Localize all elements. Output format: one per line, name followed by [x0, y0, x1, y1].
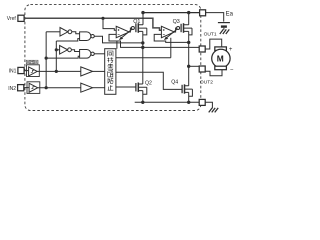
ground battery hatch — [220, 29, 230, 34]
wire U8 out to box — [93, 87, 105, 89]
arrow through U9 — [165, 29, 177, 39]
svg-text:OUT2: OUT2 — [200, 80, 213, 86]
interlock box 同時導通防止 — [105, 49, 116, 95]
wire OUT1 to terminal — [143, 46, 199, 48]
wire GND external — [205, 102, 212, 108]
wire B to NAND1 lower input — [56, 39, 79, 41]
wire U1 to box top — [116, 41, 118, 49]
wire box to Q4 gate — [116, 57, 171, 59]
op-amp U1 minus — [118, 33, 120, 35]
terminal IN2 — [18, 85, 24, 91]
svg-text:Vref: Vref — [7, 16, 17, 22]
transistor Q1 — [131, 27, 134, 30]
label 防 — [108, 78, 113, 84]
buffer U5 triangle — [29, 67, 38, 76]
node A bottom — [45, 86, 48, 89]
buffer U7 triangle — [81, 67, 93, 76]
IC dashed border — [25, 5, 201, 111]
battery Ea plate long — [218, 22, 230, 24]
node Q1 source — [141, 11, 144, 14]
svg-text:Q2: Q2 — [145, 81, 152, 87]
label 止 — [108, 85, 114, 90]
wire OUT2 riser — [188, 31, 190, 85]
svg-text:M: M — [217, 54, 224, 64]
battery Ea plate short — [221, 25, 227, 27]
svg-text:OUT1: OUT1 — [204, 31, 217, 37]
terminal Vref — [18, 15, 24, 21]
motor M circle — [212, 49, 230, 67]
transistor Q4 — [181, 85, 183, 93]
svg-text:+: + — [229, 47, 233, 53]
wire Q2 source drop — [142, 91, 144, 103]
inverter U3 bubble — [68, 48, 72, 52]
buffer U5 box — [27, 65, 40, 77]
wire OUT1 to motor — [205, 39, 222, 49]
wire U9 drive vertical — [170, 38, 172, 58]
wire VM to battery — [206, 13, 224, 22]
transistor Q3 — [177, 27, 180, 30]
svg-text:IN1: IN1 — [9, 69, 17, 75]
op-amp U9 triangle — [161, 26, 174, 37]
svg-text:Ea: Ea — [226, 12, 234, 18]
wire A to inverter U2 input — [46, 31, 60, 33]
buffer U6 hysteresis — [31, 87, 34, 89]
terminal OUT1 — [199, 46, 205, 52]
terminal IN1 — [18, 67, 24, 73]
op-amp U1 triangle — [116, 26, 129, 37]
wire OUT1 riser — [142, 31, 144, 84]
node OUT1 lower — [141, 46, 144, 49]
node GND rail left — [141, 101, 144, 104]
wire battery to ground — [223, 28, 225, 30]
op-amp U9 plus — [163, 29, 165, 31]
wire VM power rail — [143, 12, 200, 14]
buffer U6 box — [27, 82, 40, 94]
ground hatch bottom — [209, 108, 219, 113]
node Q3 source — [187, 11, 190, 14]
wire U2 out to NAND1 — [72, 32, 80, 34]
wire U1 feedback — [109, 34, 143, 47]
svg-text:−: − — [230, 68, 234, 74]
wire IN1 — [24, 70, 28, 72]
wire A to NAND2 lower input — [46, 56, 79, 58]
node GND rail right — [187, 101, 190, 104]
wire GND rail — [135, 101, 200, 103]
wire buffer U6 output — [38, 87, 81, 89]
node OUT2 upper — [187, 41, 190, 44]
svg-text:Q3: Q3 — [173, 19, 180, 25]
wire NAND2 output to box — [94, 53, 104, 55]
node OUT1 upper — [141, 41, 144, 44]
svg-text:IN2: IN2 — [8, 86, 16, 92]
label buffer 緩衝器 — [26, 60, 38, 64]
wire Vref to op-amp U1 — [103, 18, 116, 30]
wire Q4 source drop — [188, 92, 190, 102]
transistor Q2 — [135, 83, 137, 91]
svg-text:Q4: Q4 — [171, 79, 178, 85]
arrowhead U9 — [164, 37, 168, 41]
wire box branch mid — [116, 72, 182, 89]
inverter U3 triangle — [60, 46, 68, 55]
node OUT2 lower — [187, 65, 190, 68]
NAND gate U4a — [80, 32, 91, 41]
arrow through U1 — [120, 29, 132, 39]
label 同 — [108, 51, 113, 56]
inverter U2 bubble — [68, 30, 72, 34]
label 通 — [108, 71, 114, 77]
terminal OUT2 — [199, 66, 205, 72]
wire B to inverter U3 input — [56, 49, 59, 51]
node Vref branch — [101, 17, 104, 20]
buffer U5 hysteresis — [31, 70, 34, 72]
arrowhead U1 — [119, 37, 123, 41]
wire Vref rail — [24, 18, 161, 30]
wire IN2 — [24, 87, 29, 89]
wire Q3 source riser — [188, 13, 190, 25]
wire U9 out to Q3 gate — [174, 28, 176, 32]
NAND gate U4b — [80, 50, 91, 59]
node B top — [55, 70, 58, 73]
node A mid — [45, 57, 48, 60]
wire buffer U5 output — [37, 70, 81, 72]
terminal GND — [199, 99, 205, 105]
wire U7 out to box — [93, 70, 105, 72]
wire Q1 source riser — [142, 13, 144, 25]
label 時 — [108, 57, 114, 62]
motor brush top — [215, 47, 227, 51]
label 導 — [108, 64, 114, 71]
terminal VM — [200, 10, 206, 16]
wire bus A vertical — [45, 32, 47, 88]
wire U3 out to NAND2 — [71, 50, 79, 52]
NAND U4a bubble — [91, 35, 94, 38]
op-amp U9 minus — [163, 33, 165, 35]
wire U9 feedback — [154, 34, 188, 42]
wire U1 out to Q1 gate — [129, 28, 131, 32]
buffer U8 triangle — [81, 83, 93, 92]
wire OUT2 to terminal — [189, 65, 200, 67]
buffer U6 triangle — [29, 83, 38, 92]
op-amp U1 plus — [118, 29, 120, 31]
wire box to Q2 gate — [116, 86, 136, 88]
wire OUT2 to motor — [205, 70, 222, 76]
NAND U4b bubble — [91, 52, 94, 55]
svg-text:Q1: Q1 — [133, 19, 140, 25]
inverter U2 triangle — [60, 28, 68, 37]
motor brush bottom — [215, 66, 227, 70]
wire NAND1 output — [94, 36, 143, 43]
wire bus B vertical — [55, 41, 57, 71]
node B mid — [55, 48, 58, 51]
